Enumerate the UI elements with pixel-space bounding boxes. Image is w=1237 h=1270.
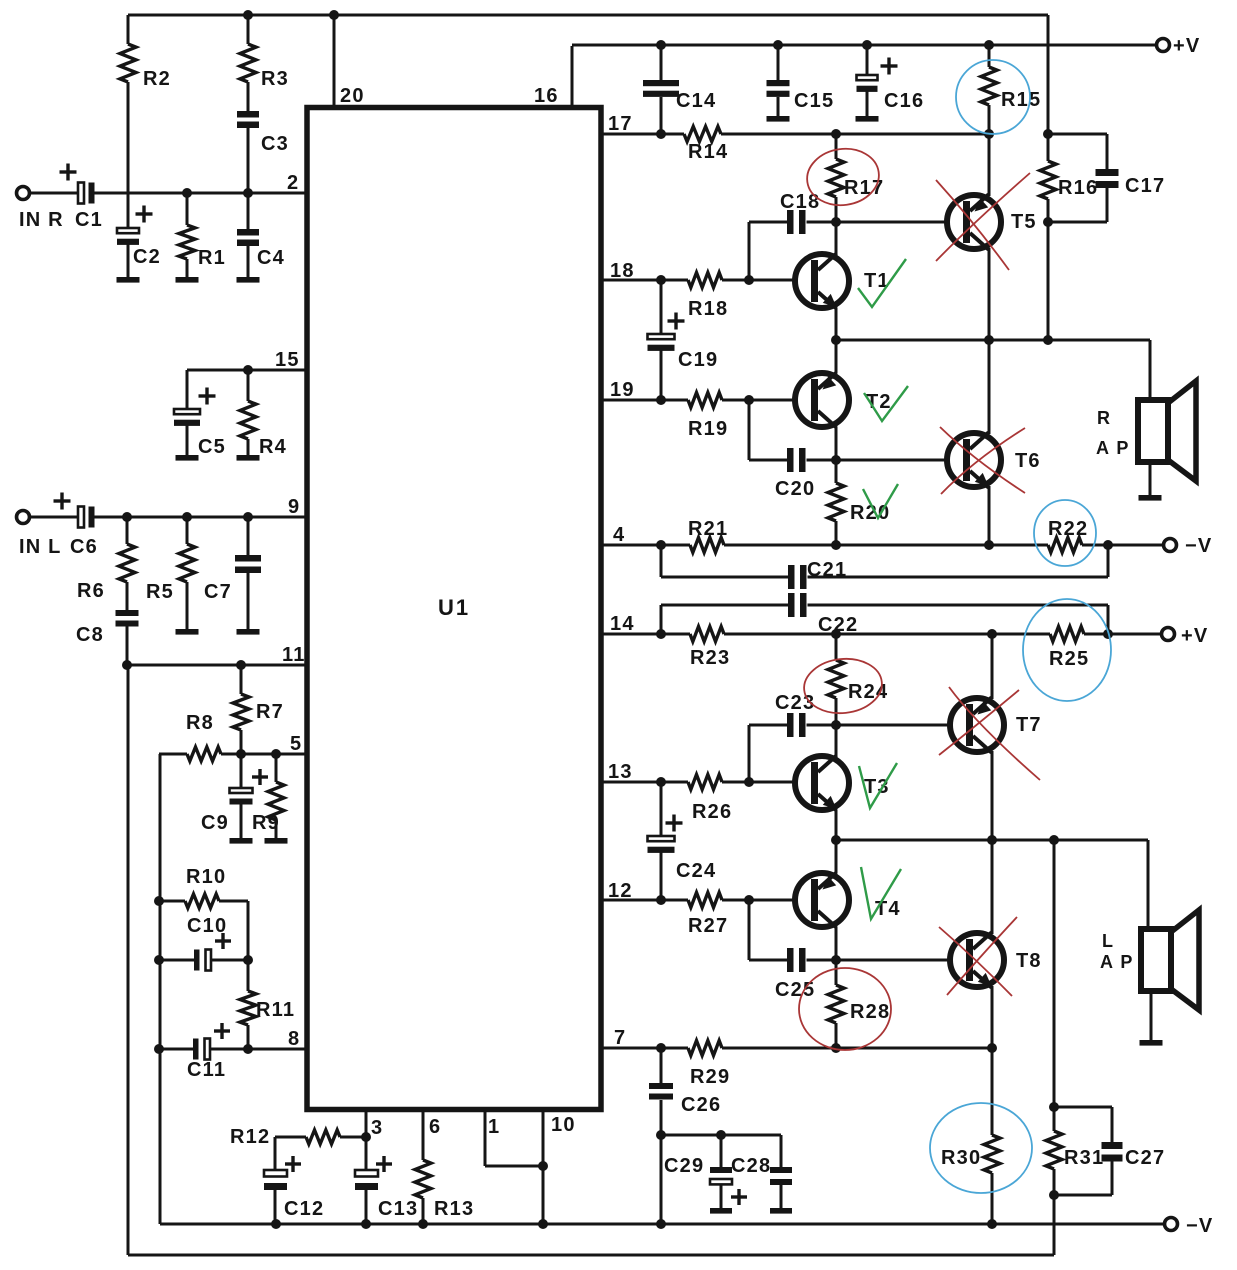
svg-text:C14: C14 xyxy=(676,90,716,112)
svg-text:−V: −V xyxy=(1186,1215,1213,1237)
svg-text:T6: T6 xyxy=(1015,450,1041,472)
svg-text:R21: R21 xyxy=(688,518,728,540)
svg-text:C6: C6 xyxy=(70,536,98,558)
svg-text:C24: C24 xyxy=(676,860,716,882)
svg-text:R30: R30 xyxy=(941,1147,981,1169)
svg-text:R1: R1 xyxy=(198,247,226,269)
svg-text:18: 18 xyxy=(610,260,635,282)
svg-text:C26: C26 xyxy=(681,1094,721,1116)
svg-text:10: 10 xyxy=(551,1114,576,1136)
svg-text:R3: R3 xyxy=(261,68,289,90)
svg-text:C21: C21 xyxy=(807,559,847,581)
svg-text:A P: A P xyxy=(1096,438,1130,458)
svg-text:5: 5 xyxy=(290,733,302,755)
svg-text:C9: C9 xyxy=(201,812,229,834)
svg-text:C20: C20 xyxy=(775,478,815,500)
svg-text:C19: C19 xyxy=(678,349,718,371)
svg-text:R5: R5 xyxy=(146,581,174,603)
svg-text:R16: R16 xyxy=(1058,177,1098,199)
svg-text:A P: A P xyxy=(1100,952,1134,972)
svg-text:6: 6 xyxy=(429,1116,441,1138)
svg-text:C8: C8 xyxy=(76,624,104,646)
svg-text:C22: C22 xyxy=(818,614,858,636)
svg-text:C3: C3 xyxy=(261,133,289,155)
svg-text:C10: C10 xyxy=(187,915,227,937)
svg-text:R19: R19 xyxy=(688,418,728,440)
svg-text:T7: T7 xyxy=(1016,714,1042,736)
svg-text:C7: C7 xyxy=(204,581,232,603)
svg-text:C12: C12 xyxy=(284,1198,324,1220)
svg-text:R2: R2 xyxy=(143,68,171,90)
svg-text:3: 3 xyxy=(371,1117,383,1139)
svg-text:T8: T8 xyxy=(1016,950,1042,972)
svg-text:8: 8 xyxy=(288,1028,300,1050)
svg-text:L: L xyxy=(1102,931,1114,951)
svg-text:R11: R11 xyxy=(256,999,295,1021)
svg-text:R22: R22 xyxy=(1048,518,1088,540)
svg-text:C17: C17 xyxy=(1125,175,1165,197)
svg-text:C5: C5 xyxy=(198,436,226,458)
svg-text:+V: +V xyxy=(1181,625,1208,647)
svg-text:14: 14 xyxy=(610,613,635,635)
svg-text:R29: R29 xyxy=(690,1066,730,1088)
svg-text:R25: R25 xyxy=(1049,648,1089,670)
svg-text:R27: R27 xyxy=(688,915,728,937)
svg-text:R4: R4 xyxy=(259,436,287,458)
svg-text:IN R: IN R xyxy=(19,209,64,231)
svg-text:U1: U1 xyxy=(438,595,470,620)
svg-text:R28: R28 xyxy=(850,1001,890,1023)
svg-text:R: R xyxy=(1097,408,1111,428)
svg-text:20: 20 xyxy=(340,85,365,107)
svg-text:7: 7 xyxy=(614,1027,626,1049)
svg-text:11: 11 xyxy=(282,644,306,666)
svg-text:T4: T4 xyxy=(875,898,901,920)
svg-text:T5: T5 xyxy=(1011,211,1037,233)
svg-text:R6: R6 xyxy=(77,580,105,602)
svg-text:9: 9 xyxy=(288,496,300,518)
svg-text:C11: C11 xyxy=(187,1059,226,1081)
svg-text:C1: C1 xyxy=(75,209,103,231)
svg-text:R12: R12 xyxy=(230,1126,270,1148)
svg-text:R31: R31 xyxy=(1064,1147,1104,1169)
svg-text:C23: C23 xyxy=(775,692,815,714)
svg-text:R9: R9 xyxy=(252,812,280,834)
svg-text:13: 13 xyxy=(608,761,633,783)
svg-text:R8: R8 xyxy=(186,712,214,734)
svg-text:C28: C28 xyxy=(731,1155,771,1177)
svg-text:C15: C15 xyxy=(794,90,834,112)
svg-text:R10: R10 xyxy=(186,866,226,888)
svg-text:17: 17 xyxy=(608,113,633,135)
svg-text:4: 4 xyxy=(613,524,625,546)
svg-text:R15: R15 xyxy=(1001,89,1041,111)
svg-text:15: 15 xyxy=(275,349,300,371)
svg-text:R7: R7 xyxy=(256,701,284,723)
svg-text:16: 16 xyxy=(534,85,559,107)
svg-text:C13: C13 xyxy=(378,1198,418,1220)
svg-text:R18: R18 xyxy=(688,298,728,320)
svg-text:C29: C29 xyxy=(664,1155,704,1177)
svg-text:19: 19 xyxy=(610,379,635,401)
svg-text:IN L: IN L xyxy=(19,536,62,558)
svg-text:+V: +V xyxy=(1173,35,1200,57)
svg-text:C16: C16 xyxy=(884,90,924,112)
svg-text:1: 1 xyxy=(488,1116,500,1138)
svg-text:C27: C27 xyxy=(1125,1147,1165,1169)
svg-text:C4: C4 xyxy=(257,247,285,269)
svg-text:R26: R26 xyxy=(692,801,732,823)
svg-text:C2: C2 xyxy=(133,246,161,268)
svg-text:R13: R13 xyxy=(434,1198,474,1220)
svg-text:12: 12 xyxy=(608,880,633,902)
svg-text:−V: −V xyxy=(1185,535,1212,557)
svg-text:R14: R14 xyxy=(688,141,728,163)
svg-text:R23: R23 xyxy=(690,647,730,669)
svg-text:2: 2 xyxy=(287,172,299,194)
